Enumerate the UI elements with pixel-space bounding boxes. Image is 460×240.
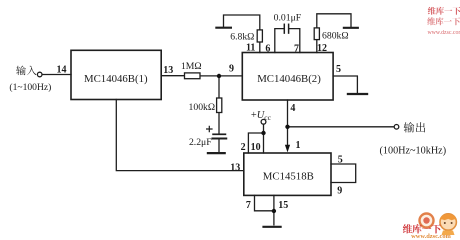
junction node Ucc xyxy=(261,131,265,135)
svg-text:9: 9 xyxy=(229,64,234,75)
svg-text:(100Hz~10kHz): (100Hz~10kHz) xyxy=(379,145,446,156)
wire U2 pin 4 down to U3 pin 1 xyxy=(287,100,289,146)
decorative watermark mascot xyxy=(440,214,456,230)
svg-text:12: 12 xyxy=(317,43,327,54)
svg-text:MC14046B(1): MC14046B(1) xyxy=(84,73,148,85)
svg-text:5: 5 xyxy=(336,64,341,75)
wire U1 bottom pin to U3 pin 13 xyxy=(116,100,244,171)
svg-text:680kΩ: 680kΩ xyxy=(322,31,349,42)
wire node B to output terminal xyxy=(288,126,395,128)
plus polarity mark of 2.2uF xyxy=(207,126,212,131)
arrowhead into U3 pin 1 xyxy=(285,145,290,153)
svg-text:13: 13 xyxy=(230,163,240,174)
decorative watermark bottom right text xyxy=(403,224,412,233)
svg-text:14: 14 xyxy=(57,64,67,75)
wire R2 to capacitor C2 xyxy=(218,113,220,135)
capacitor 2.2uF electrolytic plates xyxy=(213,133,225,135)
svg-text:11: 11 xyxy=(246,43,255,54)
wire U3 pin 15 to ground xyxy=(273,195,275,224)
svg-text:4: 4 xyxy=(290,103,295,114)
output terminal circle xyxy=(394,125,399,130)
resistor 680k ohm xyxy=(314,28,319,40)
svg-text:15: 15 xyxy=(278,200,288,211)
svg-text:9: 9 xyxy=(337,186,342,197)
wire U3 pin 7 down xyxy=(255,195,274,210)
wire U2 pin 12 to resistor R4 xyxy=(316,40,318,53)
svg-text:13: 13 xyxy=(163,65,173,76)
svg-text:10: 10 xyxy=(251,142,261,153)
wire U2 pin 6 to capacitor C1 xyxy=(275,29,284,53)
resistor 1M ohm xyxy=(185,73,201,79)
capacitor 0.01uF plates xyxy=(283,24,285,33)
junction node A (R1/R2/U2 pin9) xyxy=(217,74,221,78)
ground at 2.2uF capacitor xyxy=(208,152,225,154)
ground at 680k resistor xyxy=(344,27,358,29)
wire U3 pin 5 to pin 9 loop xyxy=(331,164,356,183)
resistor 6.8k ohm xyxy=(257,30,262,42)
svg-text:2.2μF: 2.2μF xyxy=(189,137,212,148)
svg-text:7: 7 xyxy=(246,200,251,211)
decorative watermark top right xyxy=(428,7,460,15)
wire Ucc node to U3 pin 10 xyxy=(263,133,265,153)
wire U1 pin 13 to resistor R1 xyxy=(161,75,184,77)
svg-text:6: 6 xyxy=(265,44,270,55)
wire input to U1 pin 14 xyxy=(42,74,71,76)
+Ucc terminal circle xyxy=(261,119,266,124)
decorative watermark bottom right: logo ring xyxy=(420,214,457,236)
label shuru (input) xyxy=(16,66,26,76)
wire R1 to U2 pin 9 xyxy=(200,75,242,77)
wire C1 to U2 pin 7 xyxy=(289,29,300,53)
IC U3 MC14518B box xyxy=(244,153,331,195)
op-amp/IC U1 MC14046B(1) box xyxy=(71,50,161,99)
svg-text:www.dzsc.com: www.dzsc.com xyxy=(428,30,460,36)
label shuchu (output) xyxy=(404,122,415,132)
svg-text:0.01μF: 0.01μF xyxy=(274,12,302,23)
ground at 6.8k resistor xyxy=(216,27,231,29)
ground at U2 pin 5 xyxy=(348,93,367,95)
wire C2 to ground xyxy=(218,139,220,152)
svg-text:+Ucc: +Ucc xyxy=(251,110,272,122)
input terminal circle xyxy=(37,72,42,77)
svg-text:5: 5 xyxy=(338,155,343,166)
wire U2 pin 11 to resistor R3 xyxy=(259,42,261,53)
resistor 100k ohm xyxy=(217,98,222,113)
wire R4 top to ground xyxy=(317,14,351,28)
ground at U3 pins 7 and 15 xyxy=(264,226,281,228)
junction node B (pin4/output) xyxy=(285,125,289,129)
wire U2 pin 5 to ground xyxy=(333,76,357,93)
junction node at U3 pin 15 xyxy=(272,209,276,213)
wire Ucc node to U3 pin 2 xyxy=(248,133,263,153)
wire +Ucc terminal stub xyxy=(263,124,265,133)
wire R3 top to ground xyxy=(224,15,260,30)
svg-text:www.dzsc.com: www.dzsc.com xyxy=(411,233,451,239)
svg-text:2: 2 xyxy=(241,142,246,153)
wire node A down to R2 xyxy=(218,76,220,98)
svg-text:MC14518B: MC14518B xyxy=(263,170,314,182)
svg-text:100kΩ: 100kΩ xyxy=(189,102,216,113)
svg-text:(1~100Hz): (1~100Hz) xyxy=(9,82,51,93)
svg-text:6.8kΩ: 6.8kΩ xyxy=(230,31,254,42)
svg-text:7: 7 xyxy=(294,44,299,55)
svg-text:1MΩ: 1MΩ xyxy=(181,61,202,72)
svg-text:MC14046B(2): MC14046B(2) xyxy=(257,73,321,85)
IC U2 MC14046B(2) box xyxy=(242,53,333,101)
svg-text:1: 1 xyxy=(296,140,301,151)
